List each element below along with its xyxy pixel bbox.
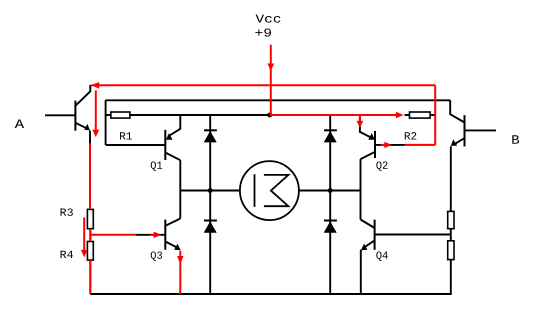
transistor Q3 collector [165, 219, 180, 226]
arrow red Q3 base right [154, 232, 162, 238]
diode D1 triangle [204, 131, 217, 142]
arrow Vcc down [267, 64, 274, 72]
wire right resistor mid [450, 229, 452, 241]
motor M1 symbol bar [254, 174, 256, 207]
transistor Q2 emitter from rail [360, 115, 372, 138]
transistor Q4 base wire [375, 234, 451, 236]
transistor Q1 emitter from rail [168, 115, 180, 137]
resistor R2 [410, 112, 431, 118]
wire red below R4 overlay [89, 260, 91, 294]
node motor-left dot [208, 188, 213, 193]
node motor-right dot [328, 188, 333, 193]
wire A base [45, 114, 75, 116]
diode D1 cathode bar [204, 129, 217, 131]
transistor Q2 collector [361, 152, 376, 159]
motor M1 circle [240, 161, 299, 220]
label Q4 [376, 251, 387, 260]
transistor Q1 collector [165, 153, 180, 161]
transistor Q3 bar [164, 220, 166, 250]
diode D2 cathode bar [324, 129, 337, 131]
transistor Q2 bar [374, 131, 376, 158]
motor M1 symbol zigzag [264, 175, 289, 206]
wire red to Q2 base [405, 144, 435, 146]
wire Vcc red drop [270, 45, 272, 115]
wire red right edge [434, 85, 436, 145]
resistor R4 [87, 242, 93, 261]
wire rail left lead [106, 114, 111, 116]
resistor R5 (right upper) [448, 211, 454, 228]
wire R2 left lead [405, 114, 411, 116]
resistor R3 [87, 209, 93, 228]
arrow red beside R3R4 [83, 218, 85, 251]
label Q2 [376, 161, 387, 170]
arrow red left column down [95, 91, 97, 131]
wire right diode column [329, 115, 331, 294]
wire red A emitter overlay [89, 144, 91, 210]
transistor QA emitter [75, 123, 86, 128]
wire Vcc rail black [130, 114, 270, 116]
transistor QA bar [74, 101, 76, 131]
wire ground rail [90, 293, 452, 295]
wire Q1-Q3 collector column [179, 160, 181, 218]
wire R3-R4 mid [89, 229, 91, 242]
node Vcc junction dot [267, 113, 272, 118]
transistor Q1 bar [164, 130, 166, 160]
transistor Q3 emitter [165, 242, 177, 248]
transistor Q2 base wire [375, 144, 405, 146]
label Q3 [151, 251, 162, 260]
wire QA emitter down [89, 131, 91, 210]
transistor Q4 collector [361, 220, 375, 229]
wire QB emitter down [450, 146, 452, 211]
transistor QB collector [450, 100, 464, 122]
diode D3 triangle [204, 221, 217, 233]
transistor Q3 base stub [136, 234, 166, 236]
transistor QA collector [75, 85, 90, 106]
label +9 [255, 28, 271, 36]
wire Q1 base [106, 144, 166, 146]
diode D4 triangle [324, 221, 337, 233]
resistor R1 [111, 112, 130, 118]
wire below R4 [89, 260, 91, 294]
wire R2 right lead [430, 114, 435, 116]
arrow red Q3 emitter [177, 256, 183, 264]
transistor QB bar [464, 115, 466, 146]
label Q1 [151, 161, 162, 170]
transistor Q4 emitter [364, 240, 375, 247]
wire red R3-R4 mid overlay [89, 229, 91, 242]
diode D4 cathode bar [324, 220, 337, 222]
wire Q2-Q4 collector column [360, 159, 362, 219]
wire Q4 emitter down [360, 250, 362, 294]
arrow red top left [91, 82, 99, 89]
label Vcc [256, 15, 281, 23]
wire red rail to R2 [270, 114, 397, 116]
wire red top line [91, 84, 435, 86]
diode D3 cathode bar [204, 220, 217, 222]
diode D2 triangle [324, 131, 337, 142]
wire red Q3 base [90, 234, 135, 236]
wire motor left lead [180, 190, 240, 192]
arrow red Q2 emitter down [359, 115, 361, 122]
arrow red rail right [396, 112, 404, 118]
transistor Q4 bar [374, 220, 376, 250]
transistor QB base [465, 129, 497, 131]
node A label [15, 119, 24, 128]
arrow red Q2 base right [381, 144, 385, 146]
node B label [512, 135, 519, 144]
wire right resistor bottom [450, 260, 452, 294]
resistor R6 (right lower) [448, 241, 454, 260]
wire left diode column [209, 115, 211, 294]
transistor QB emitter [454, 138, 465, 144]
wire loop left edge [105, 100, 107, 145]
wire motor right lead [299, 190, 361, 192]
wire red Q3 emitter down [179, 251, 181, 294]
wire loop: B-collector to Q1 base (top edge) [106, 99, 451, 101]
